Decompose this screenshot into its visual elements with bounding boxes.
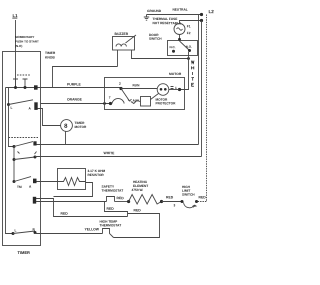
wire white drop xyxy=(180,52,189,90)
wire L1 drop xyxy=(15,20,17,88)
svg-text:ORANGE: ORANGE xyxy=(67,97,83,101)
svg-text:N.C.: N.C. xyxy=(169,45,175,49)
wire aux to protector xyxy=(131,101,141,104)
node L1 label xyxy=(12,13,18,18)
wire yellow xyxy=(35,233,103,235)
svg-text:L: L xyxy=(14,228,16,232)
timer box outline xyxy=(3,52,41,246)
label heating element xyxy=(131,180,148,192)
label motor protector xyxy=(155,98,176,106)
label motor xyxy=(169,72,182,76)
resistor R1 element xyxy=(58,178,86,186)
svg-text:RED: RED xyxy=(133,208,141,212)
label door switch xyxy=(149,33,162,41)
label timer bottom xyxy=(17,250,30,255)
high limit switch S6 xyxy=(182,185,195,197)
svg-text:L: L xyxy=(10,106,12,110)
svg-text:8: 8 xyxy=(64,124,68,130)
label white mid xyxy=(103,151,115,155)
svg-text:R: R xyxy=(32,227,35,231)
motor terminal 1 xyxy=(109,102,112,105)
wire safety stat bypass xyxy=(105,202,128,217)
svg-text:(N.O): (N.O) xyxy=(15,44,22,48)
svg-text:RED: RED xyxy=(116,196,124,200)
svg-text:RED: RED xyxy=(106,207,114,211)
svg-text:2: 2 xyxy=(119,82,121,86)
wire orange xyxy=(41,103,111,105)
svg-text:4750 W.: 4750 W. xyxy=(131,188,143,192)
wire protector to motor xyxy=(151,94,159,100)
wire left bus xyxy=(6,88,14,234)
buzzer striker xyxy=(126,35,137,43)
label red 1 xyxy=(60,212,68,216)
svg-text:THERMOSTAT: THERMOSTAT xyxy=(99,223,121,227)
switch S7 heat selector row6 xyxy=(12,232,15,235)
wire timer-motor feed xyxy=(38,109,61,126)
thermal fuse F1 xyxy=(174,24,185,35)
wire buzzer tap xyxy=(53,67,118,88)
svg-text:PROTECTOR: PROTECTOR xyxy=(155,101,176,105)
label red 3 xyxy=(106,207,114,211)
svg-text:RUN: RUN xyxy=(132,83,140,87)
svg-text:WHITE: WHITE xyxy=(103,151,115,155)
svg-text:F2: F2 xyxy=(187,31,191,35)
wire run winding xyxy=(121,88,157,90)
buzzer BZ1 box xyxy=(113,37,135,51)
label purple xyxy=(67,82,82,86)
timer heat terminals xyxy=(33,197,36,204)
aux arc xyxy=(112,98,124,103)
wire M2 white xyxy=(35,156,202,158)
label buzzer xyxy=(114,32,128,36)
wire neutral top xyxy=(147,14,203,16)
wire M1 neutral return xyxy=(37,144,199,146)
svg-text:RED: RED xyxy=(198,195,206,199)
wire fuse to door switch xyxy=(179,35,181,41)
svg-text:MOMENTARY: MOMENTARY xyxy=(15,35,34,39)
svg-text:SWITCH: SWITCH xyxy=(149,37,162,41)
wire neutral bus A xyxy=(198,15,200,145)
svg-text:RED: RED xyxy=(60,212,68,216)
label red 2 xyxy=(116,196,124,200)
wire to heater node xyxy=(115,201,129,203)
label timer knob xyxy=(45,51,56,60)
svg-text:7: 7 xyxy=(109,96,111,100)
wire resistor feed xyxy=(37,181,58,183)
svg-text:L2: L2 xyxy=(208,9,214,14)
label orange xyxy=(67,97,83,101)
wire inner bus2 xyxy=(9,88,15,147)
label red 4 xyxy=(166,195,174,199)
label high temp thermostat xyxy=(99,220,121,228)
svg-text:MOTOR: MOTOR xyxy=(74,125,87,129)
heating element E1 xyxy=(129,195,162,205)
motor protector box xyxy=(141,97,151,107)
label ground xyxy=(147,9,162,13)
label neutral xyxy=(172,8,187,12)
wire purple xyxy=(41,87,122,89)
switch S5 timer contact row5 resistor feed xyxy=(13,180,16,183)
label thermal fuse xyxy=(152,17,181,25)
switch S4 timer contact row4 white xyxy=(13,158,16,161)
label aux xyxy=(132,99,140,103)
svg-text:MOTOR: MOTOR xyxy=(169,72,182,76)
switch S3 timer contact row3 xyxy=(13,145,16,148)
label white vertical xyxy=(191,61,194,87)
door switch box xyxy=(168,41,198,56)
node heater right xyxy=(160,200,163,203)
wire thermal fuse top xyxy=(180,21,203,24)
dashed actuator link row3 xyxy=(9,137,39,139)
resistor R1 box xyxy=(58,169,86,190)
motor box xyxy=(105,78,185,110)
svg-text:4: 4 xyxy=(192,205,194,209)
svg-text:RESISTOR: RESISTOR xyxy=(87,173,104,177)
node neutral junction xyxy=(200,13,203,16)
svg-text:GROUND: GROUND xyxy=(147,9,162,13)
svg-text:PUSH TO START: PUSH TO START xyxy=(15,39,39,43)
high temp thermostat symbol xyxy=(103,229,114,238)
centrifugal switch arm xyxy=(121,89,130,102)
svg-text:A: A xyxy=(28,106,31,110)
svg-text:THERMOSTAT: THERMOSTAT xyxy=(101,189,123,193)
wire buzzer left lead xyxy=(117,50,119,67)
contact marks row3c xyxy=(18,152,37,155)
wire red line B upper xyxy=(114,214,160,238)
label momentary push to start xyxy=(15,35,39,48)
svg-text:SWITCH: SWITCH xyxy=(182,193,195,197)
svg-text:PURPLE: PURPLE xyxy=(67,82,82,86)
label red 5 xyxy=(198,195,206,199)
svg-text:N.O.: N.O. xyxy=(186,45,192,49)
svg-text:YELLOW: YELLOW xyxy=(84,227,99,231)
svg-text:F1: F1 xyxy=(187,24,191,28)
svg-text:NEUTRAL: NEUTRAL xyxy=(172,8,187,12)
wire timer motor return xyxy=(65,131,67,144)
label timer motor xyxy=(74,121,87,129)
svg-text:L1: L1 xyxy=(12,13,18,18)
ground symbol xyxy=(144,15,149,21)
wire safety stat feed xyxy=(36,201,107,203)
wire red lower loop xyxy=(36,199,128,217)
svg-text:TIMER: TIMER xyxy=(17,250,30,255)
wire resistor return xyxy=(54,183,93,197)
label yellow xyxy=(84,227,99,231)
wire neutral bus B xyxy=(201,21,203,157)
label red 6 xyxy=(133,208,141,212)
timer motor TM xyxy=(61,120,73,132)
svg-text:RED: RED xyxy=(166,195,174,199)
label run xyxy=(132,83,140,87)
safety thermostat symbol xyxy=(107,197,115,202)
label safety thermostat xyxy=(101,185,123,193)
motor terminal 2 xyxy=(119,87,122,90)
svg-text:TIMER: TIMER xyxy=(45,51,56,55)
svg-text:3: 3 xyxy=(173,203,175,207)
svg-text:KNOB: KNOB xyxy=(45,55,55,59)
motor M1 xyxy=(157,84,169,96)
switch S1 push-to-start contacts xyxy=(6,87,41,89)
door switch contacts xyxy=(178,38,181,41)
wire buzzer right lead xyxy=(132,50,189,59)
svg-text:TM: TM xyxy=(17,185,22,189)
wire inner bus row3-row4 xyxy=(13,147,15,182)
svg-text:BUZZER: BUZZER xyxy=(114,32,128,36)
switch S2 timer contact row2 xyxy=(7,103,10,106)
motor right terminal xyxy=(171,87,174,89)
wire heater to switch xyxy=(162,201,183,203)
label resistor value xyxy=(87,169,105,177)
svg-text:A: A xyxy=(29,185,32,189)
buzzer element xyxy=(116,44,126,47)
wire L2 xyxy=(208,9,214,14)
node D junction xyxy=(127,200,130,203)
